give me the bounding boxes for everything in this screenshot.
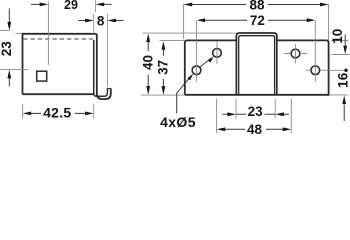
dim 16 top reference line with dot	[344, 69, 347, 72]
dim 37 vertical	[162, 47, 164, 90]
left view plate outer outline	[23, 34, 111, 99]
dim 48 extension lines	[217, 99, 292, 133]
right view bridge outer walls	[236, 40, 276, 94]
svg-text:8: 8	[97, 13, 105, 28]
svg-text:23: 23	[248, 104, 264, 119]
dim 23 top extension line	[0, 30, 10, 32]
svg-text:29: 29	[64, 0, 78, 12]
hole B lower-left block	[192, 66, 201, 75]
hole B centerline / 72 ext left	[196, 21, 198, 82]
hole A upper-left block	[213, 49, 222, 58]
left view lip cap	[107, 88, 110, 90]
4xO5 leader line	[177, 78, 190, 114]
right view bridge inner contour	[239, 36, 275, 94]
dim 23 bottom extension line	[0, 69, 29, 71]
dim 23 (right view) line and outside arrows	[223, 113, 290, 115]
mid extension line at block-top level	[160, 40, 185, 42]
dim 10 arrow	[344, 35, 346, 48]
bottom extension line left of right view	[141, 94, 185, 96]
svg-text:88: 88	[249, 0, 265, 13]
dim 10 extension lines right	[332, 41, 350, 55]
dim 29 extension line left (into part)	[47, 2, 49, 66]
svg-text:42.5: 42.5	[43, 104, 71, 120]
dim 23 upper arrow	[8, 9, 10, 24]
left view lip inner contour	[94, 40, 108, 96]
dim 29 line with outside arrows	[31, 3, 112, 5]
dim 48 line and arrows	[225, 128, 283, 130]
dim 23 (right view) extension lines	[236, 99, 275, 119]
svg-text:37: 37	[155, 60, 170, 75]
svg-text:4xØ5: 4xØ5	[160, 114, 196, 130]
dim 72 line and arrows	[204, 19, 308, 21]
left long extension line at bridge-top level	[143, 32, 237, 34]
dim 8 arrows	[79, 20, 86, 22]
left view plate bottom edge	[23, 93, 94, 95]
dim 23 lower arrow	[8, 78, 10, 87]
hole A centerline	[216, 41, 218, 64]
dim 88 line and arrows	[191, 4, 320, 6]
dim 42.5 line and arrows	[31, 112, 85, 114]
left view hidden dashed line	[23, 38, 93, 40]
dim 29 extension line right	[95, 1, 97, 13]
hole C upper-right block	[291, 49, 300, 58]
hole D horizontal centerline	[306, 69, 344, 71]
dim 42.5 extension lines	[23, 105, 94, 119]
svg-text:16: 16	[335, 72, 350, 88]
dim 8 extension lines	[93, 14, 95, 34]
dim 40 vertical	[147, 40, 149, 90]
svg-text:72: 72	[250, 13, 265, 28]
dim 88 extension lines	[184, 4, 329, 40]
hole C centerlines	[284, 44, 307, 64]
svg-text:48: 48	[247, 122, 263, 137]
svg-text:40: 40	[141, 55, 156, 70]
hole D lower-right block	[311, 66, 320, 75]
hole D centerline / 72 ext right	[314, 21, 316, 82]
svg-text:23: 23	[0, 41, 14, 57]
left view square hole	[37, 71, 47, 81]
svg-text:10: 10	[330, 29, 345, 44]
bottom-right extension line	[330, 94, 348, 96]
dim 16 lower arrow	[343, 105, 345, 122]
right view plate outline	[185, 33, 329, 95]
